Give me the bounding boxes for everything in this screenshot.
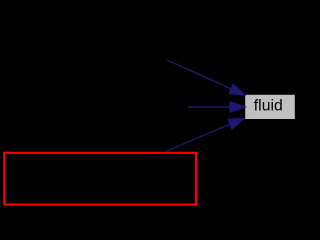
node: fluid (gray box) [245, 95, 295, 119]
edge 3: from red box to fluid [165, 118, 245, 152]
edge 2: from hidden middle node to fluid [188, 102, 246, 113]
svg-text:fluid: fluid [254, 98, 283, 115]
edge 1: from hidden top node to fluid [167, 60, 245, 95]
node: red-bordered box (truncated graph node, label hidden on black) [4, 153, 196, 205]
